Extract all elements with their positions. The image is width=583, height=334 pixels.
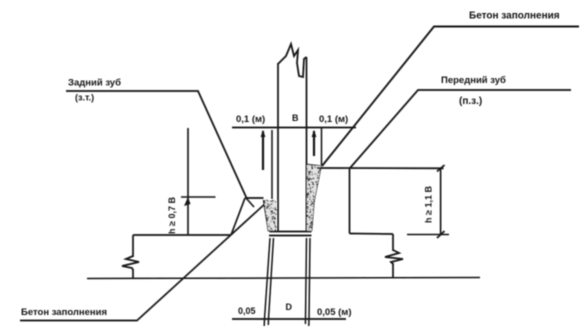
svg-text:0,05: 0,05 (238, 306, 256, 316)
left block left edge with break (132, 235, 134, 257)
extension line right outer (321, 127, 323, 165)
pile lower: left inner wall (268, 238, 273, 325)
svg-text:Передний зуб: Передний зуб (441, 75, 506, 86)
left tooth sloped face (231, 198, 245, 235)
left infill stipple (264, 200, 277, 232)
right block top edge (317, 167, 444, 169)
dimension h >= 1,1 B: slash marks (437, 165, 445, 172)
pile lower: right inner wall (305, 238, 306, 324)
svg-text:(п.з.): (п.з.) (459, 96, 482, 107)
right infill fill (307, 165, 321, 231)
pile lower: right outer wall (309, 238, 310, 326)
extension arrow right inner (313, 131, 315, 156)
bottom dimension line 0,05 / D / 0,05 (м) (232, 318, 346, 320)
svg-text:0,1 (м): 0,1 (м) (319, 114, 348, 125)
pile: left edge upper part (277, 63, 279, 232)
left block top edge (133, 234, 231, 236)
wire: leader for label Бетон заполнения (bottom left) (20, 202, 267, 321)
right block step (350, 233, 394, 236)
dimension h >= 1,1 B: bottom tick line (407, 234, 449, 236)
svg-text:0,05 (м): 0,05 (м) (317, 307, 351, 318)
svg-text:0,1 (м): 0,1 (м) (236, 114, 265, 125)
extension arrow left outer (262, 131, 264, 170)
svg-text:h ≥ 0,7 В: h ≥ 0,7 В (167, 197, 177, 234)
pile: break symbol at top (278, 44, 307, 77)
left tooth top edge (245, 197, 264, 199)
wire: leader arrow flick (Задний зуб) (246, 198, 254, 207)
extension line left inner (271, 130, 273, 199)
svg-text:h ≥ 1,1 В: h ≥ 1,1 В (424, 186, 434, 223)
dimension h >= 0,7 B: arrowhead (184, 197, 191, 206)
wire: leader for label Передний зуб (350, 90, 571, 168)
svg-text:Бетон заполнения: Бетон заполнения (469, 11, 560, 22)
left infill fill (264, 200, 277, 231)
wire: leader for label Задний зуб (66, 91, 247, 199)
pile: right edge upper part (306, 57, 308, 232)
svg-text:(з.т.): (з.т.) (75, 93, 94, 103)
wire: leader horizontal for label Бетон заполнения (top right) (322, 27, 579, 167)
svg-text:D: D (286, 302, 293, 312)
ground line (87, 278, 480, 279)
right block left face (349, 169, 351, 234)
dimension line 0,1 (м) / В / 0,1 (м) (232, 127, 356, 129)
right block lower edge with break (392, 234, 394, 251)
right infill wedge outline (307, 165, 322, 232)
right infill stipple (307, 165, 321, 230)
dimension h >= 1,1 B: vertical line (440, 168, 442, 234)
pile lower: left outer wall (264, 238, 270, 326)
dimension h >= 0,7 B: vertical line (187, 128, 189, 235)
svg-text:Бетон заполнения: Бетон заполнения (21, 307, 107, 318)
collar bottom line (269, 235, 312, 237)
collar top line (270, 231, 312, 233)
svg-text:В: В (292, 113, 299, 123)
svg-text:Задний зуб: Задний зуб (68, 78, 121, 89)
dimension h >= 0,7 B: tick line (181, 196, 216, 198)
left infill strip outline (264, 200, 269, 232)
